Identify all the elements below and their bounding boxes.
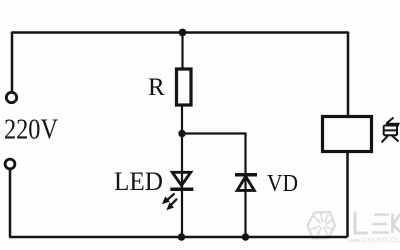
watermark letter E xyxy=(372,215,389,233)
LED light arrow 1 xyxy=(162,194,175,205)
LED light arrow 2 xyxy=(166,199,177,210)
node mid junction xyxy=(178,130,185,137)
wire resistor bottom lead through LED to bottom xyxy=(181,105,183,237)
load box xyxy=(323,117,372,152)
terminal lower 220V xyxy=(5,159,15,169)
label 负 (load) drawn strokes xyxy=(382,118,399,143)
watermark letter L xyxy=(355,212,368,234)
wire branch to VD and through VD to bottom xyxy=(182,134,246,238)
terminal upper 220V xyxy=(6,92,16,102)
node bottom junction LED xyxy=(178,233,186,241)
wire left top vertical xyxy=(11,32,14,92)
svg-text:R: R xyxy=(148,74,165,101)
watermark logo hexagon xyxy=(308,212,336,239)
wire top horizontal xyxy=(12,31,348,34)
resistor R xyxy=(177,69,192,105)
wire bottom horizontal xyxy=(9,236,348,239)
diode VD xyxy=(235,175,257,191)
wire resistor top lead xyxy=(181,33,183,70)
node top junction xyxy=(179,29,187,37)
wire load bottom lead xyxy=(346,152,349,237)
node bottom junction VD xyxy=(242,233,250,241)
LED D1 xyxy=(170,172,193,189)
watermark starburst rays xyxy=(311,213,333,236)
watermark letter K partial xyxy=(393,214,400,234)
svg-text:VD: VD xyxy=(267,171,298,197)
svg-text:220V: 220V xyxy=(4,115,58,146)
wire left bottom vertical xyxy=(9,170,12,238)
svg-text:ww.ChLED.CL: ww.ChLED.CL xyxy=(348,237,400,244)
wire right vertical to load xyxy=(347,32,350,117)
svg-text:LED: LED xyxy=(114,167,163,196)
